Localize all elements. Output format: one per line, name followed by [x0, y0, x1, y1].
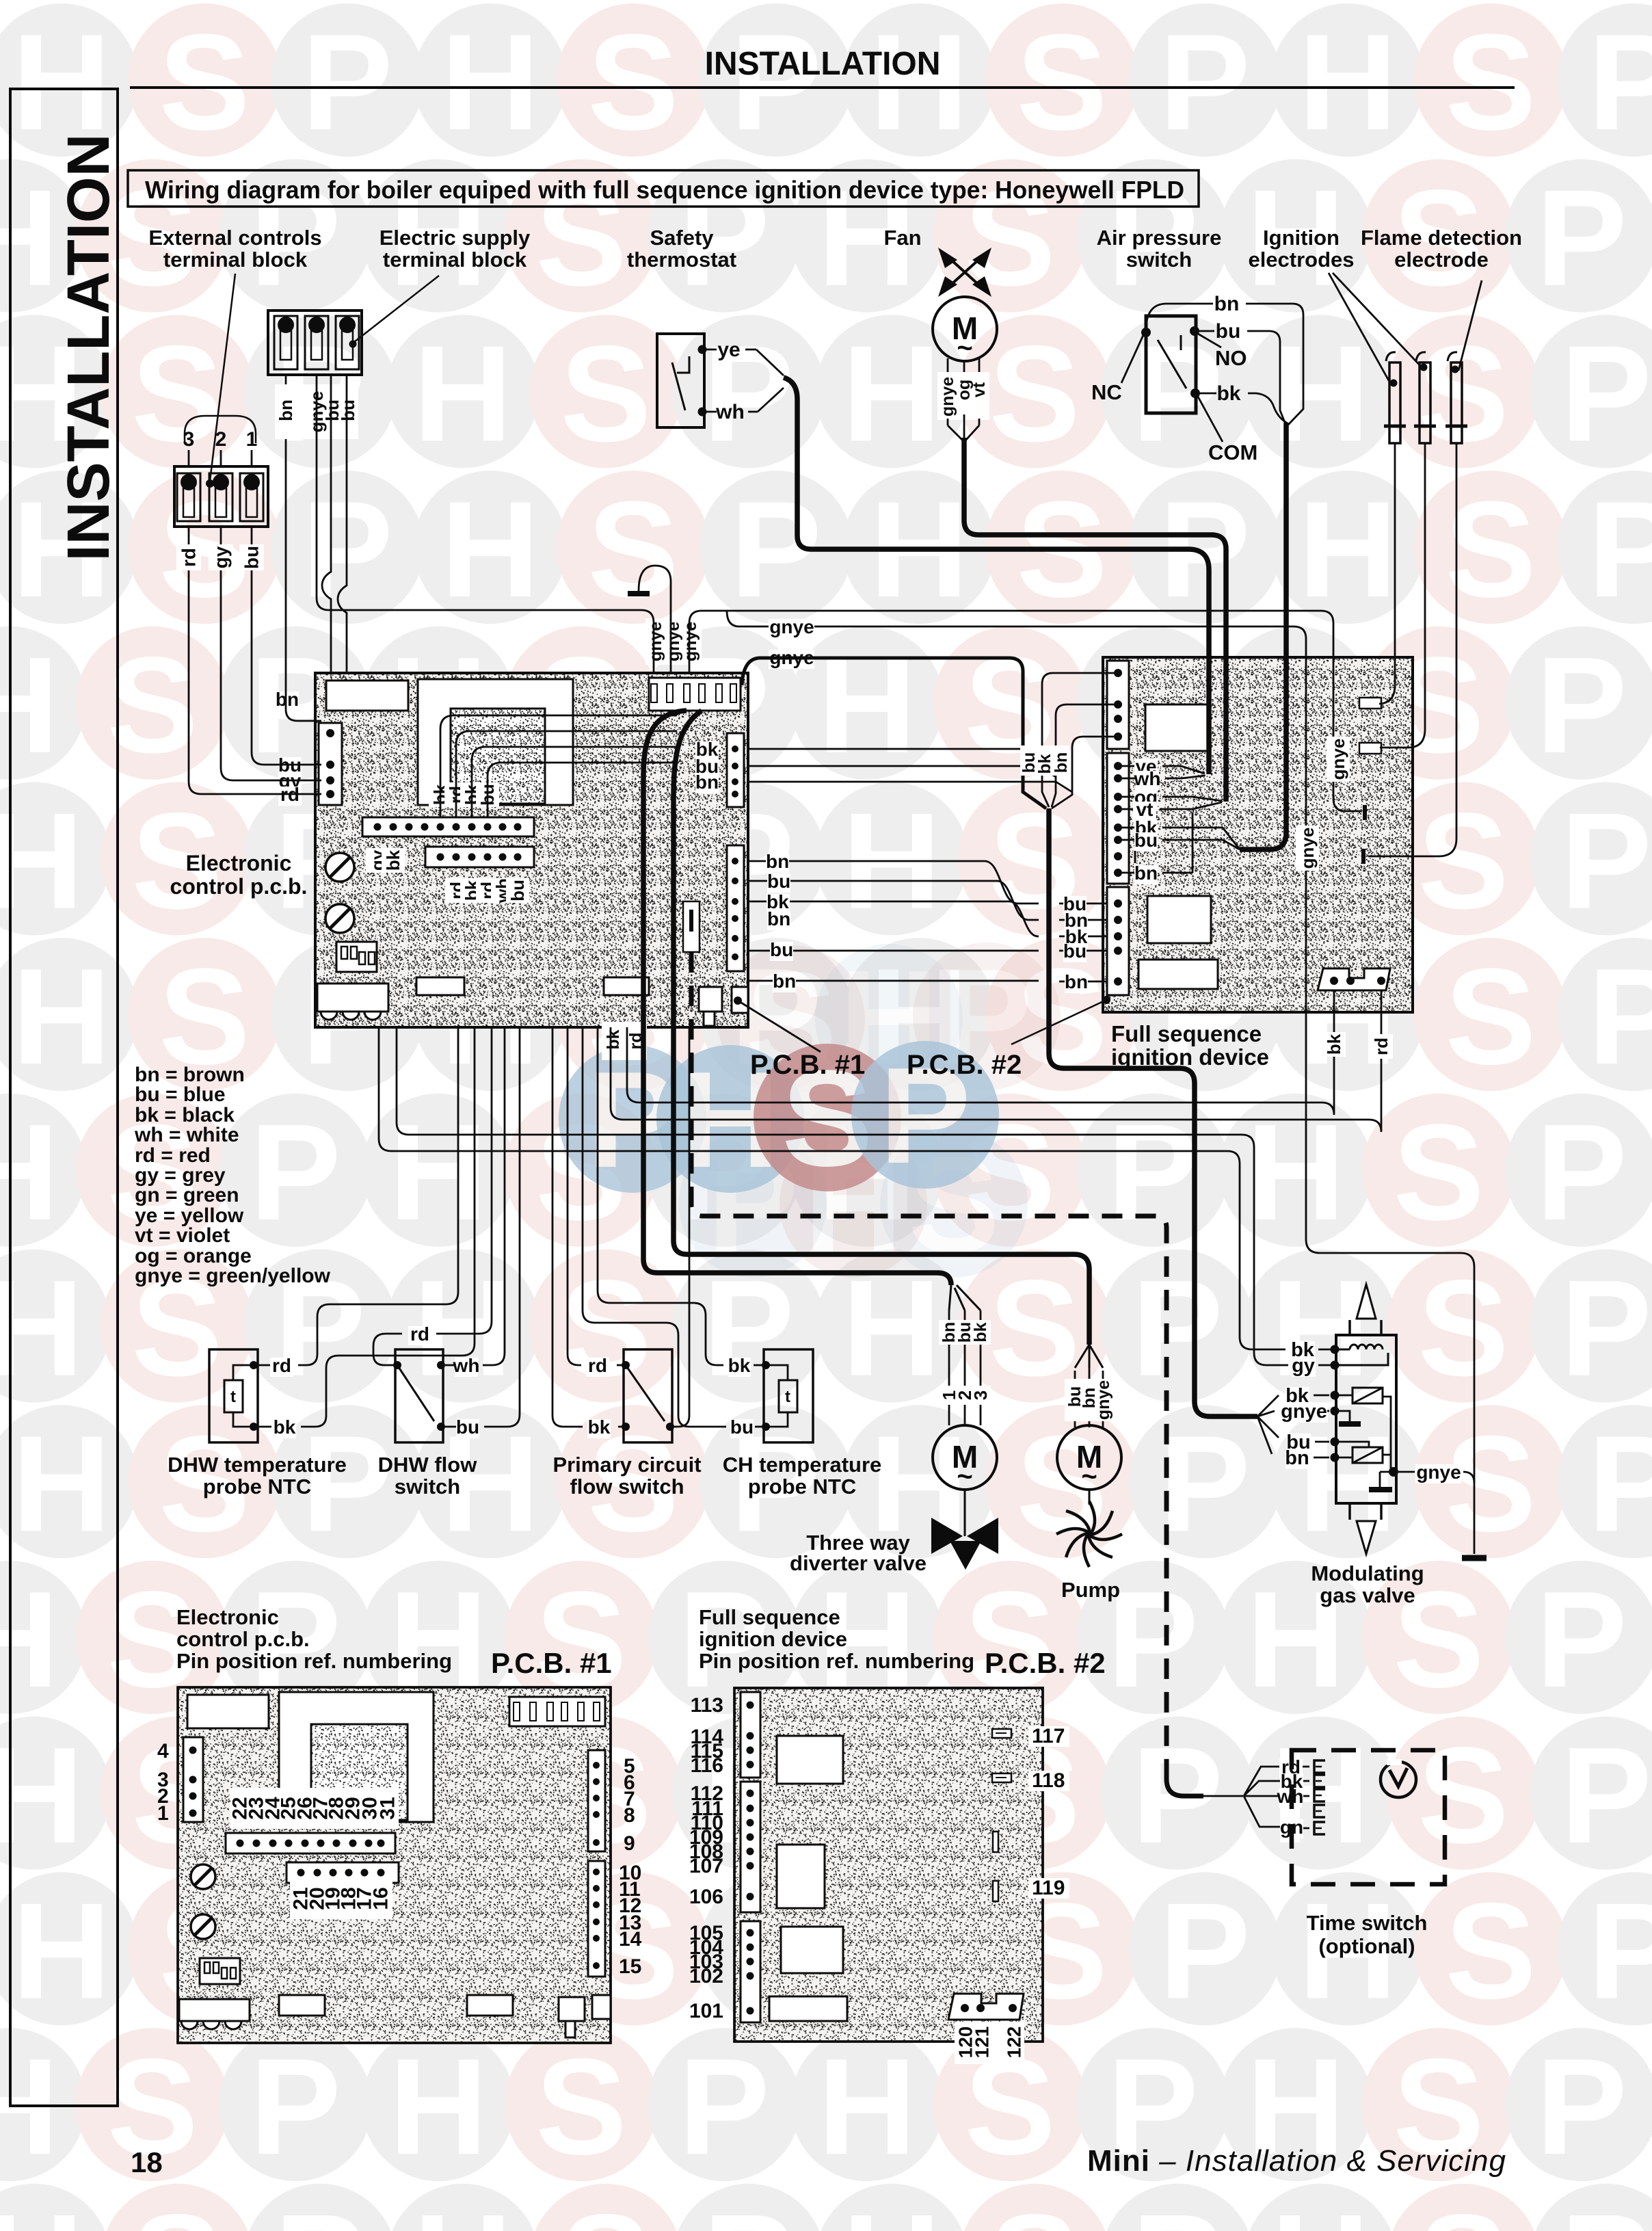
svg-text:H: H — [0, 162, 59, 315]
svg-text:P.C.B. #1: P.C.B. #1 — [750, 1050, 865, 1080]
svg-text:bn: bn — [1052, 752, 1071, 774]
svg-text:15: 15 — [619, 1955, 641, 1978]
electronic control pcb (PCB1) board — [276, 618, 1203, 1796]
svg-text:S: S — [1016, 6, 1107, 159]
wire rd DHW flow — [373, 1334, 402, 1365]
svg-text:P: P — [1560, 317, 1651, 470]
svg-text:gnye: gnye — [646, 622, 665, 661]
wire ignition electrode 1 to ignition device — [1379, 443, 1395, 704]
svg-text:H: H — [818, 629, 916, 782]
pcb1 gnye connector — [649, 678, 741, 711]
wire ye — [704, 349, 717, 351]
svg-text:H: H — [0, 785, 83, 938]
pcb1 left connector — [319, 723, 342, 805]
primary circuit flow switch — [624, 1349, 672, 1442]
gas valve gnye earth — [1331, 1407, 1340, 1416]
svg-text:wh: wh — [715, 401, 745, 423]
svg-text:101: 101 — [689, 2000, 723, 2022]
svg-text:S: S — [1393, 1096, 1484, 1249]
svg-text:S: S — [587, 473, 678, 626]
wire bk CH probe — [754, 1364, 762, 1367]
svg-text:Wiring diagram for boiler equi: Wiring diagram for boiler equiped with f… — [145, 176, 1184, 204]
svg-text:P: P — [1536, 1563, 1627, 1716]
fsid right pin symbols — [1359, 698, 1381, 709]
pcb1 right connector 2 — [727, 845, 744, 971]
diverter valve motor — [933, 1425, 997, 1490]
diverter valve symbol — [931, 1518, 963, 1554]
fsid connector 3 — [1107, 887, 1129, 995]
svg-text:gas valve: gas valve — [1320, 1583, 1415, 1607]
gas valve internal bus — [1383, 1397, 1391, 1472]
svg-text:P: P — [703, 2187, 794, 2231]
svg-text:gy: gy — [1292, 1355, 1315, 1377]
svg-text:Electronic: Electronic — [186, 851, 292, 875]
svg-text:bk: bk — [1216, 382, 1240, 405]
svg-text:P: P — [1107, 1563, 1198, 1716]
svg-text:bn: bn — [276, 399, 296, 421]
svg-text:P: P — [1536, 2031, 1627, 2183]
svg-text:H: H — [870, 6, 968, 159]
svg-text:bu = blue: bu = blue — [135, 1083, 226, 1106]
svg-text:H: H — [414, 2187, 512, 2231]
earth symbol near pcb1 — [628, 591, 650, 596]
pinout pcb2 board — [734, 1688, 1043, 2042]
svg-text:~: ~ — [1081, 1462, 1097, 1492]
svg-text:P: P — [1159, 1875, 1250, 2027]
time switch wire split — [1203, 1795, 1243, 1797]
svg-text:bu: bu — [507, 880, 528, 901]
pcb1 white routing region — [418, 679, 573, 805]
svg-text:wh: wh — [453, 1355, 480, 1376]
wire bu from supply to pcb1 — [322, 375, 331, 673]
svg-text:P: P — [1588, 473, 1652, 626]
bundle legs from fsid conn1 — [1042, 673, 1122, 807]
svg-text:S: S — [131, 2187, 222, 2231]
svg-text:P: P — [1132, 1252, 1223, 1405]
svg-text:H: H — [0, 1563, 59, 1716]
svg-text:S: S — [1445, 940, 1536, 1093]
svg-text:P: P — [1588, 940, 1652, 1093]
leader external controls — [210, 274, 235, 481]
svg-text:rd: rd — [410, 1323, 429, 1345]
svg-text:S: S — [1417, 1252, 1508, 1405]
wire flame electrode to ignition device — [1368, 443, 1456, 856]
svg-text:COM: COM — [1208, 440, 1257, 464]
pcb1 10-pin connector — [362, 817, 534, 836]
electric supply terminal block — [268, 311, 362, 375]
pinout pcb1 dip — [200, 1958, 240, 1984]
fsid pin wires and labels — [1122, 765, 1135, 767]
svg-text:H: H — [0, 2187, 83, 2231]
wires pcb1 conn1 to bundle — [748, 749, 1042, 761]
fan wires gnye og vt — [947, 358, 949, 373]
pinout pcb1 right connectors — [588, 1750, 605, 1851]
svg-text:S: S — [1417, 785, 1508, 938]
svg-text:102: 102 — [689, 1965, 723, 1988]
fsid connector 1 — [1107, 661, 1129, 749]
svg-text:vt = violet: vt = violet — [135, 1224, 230, 1247]
svg-text:16: 16 — [370, 1887, 392, 1910]
svg-text:S: S — [560, 2187, 651, 2231]
leader ignition electrodes — [1329, 273, 1390, 383]
svg-text:S: S — [587, 6, 678, 159]
svg-text:S: S — [107, 629, 198, 782]
svg-text:P: P — [1536, 1096, 1627, 1249]
gas valve gnye tail to earth — [1398, 1471, 1415, 1473]
wire wh — [704, 411, 717, 413]
svg-text:terminal block: terminal block — [383, 248, 527, 272]
wire bu 2 from supply to pcb1 — [338, 375, 347, 673]
pcb1 bottom-left connector — [317, 984, 388, 1012]
pcb1 mains connector — [326, 681, 408, 711]
svg-text:DHW temperature: DHW temperature — [168, 1453, 347, 1477]
svg-text:gnye: gnye — [1416, 1462, 1461, 1483]
svg-text:H: H — [441, 6, 539, 159]
svg-text:switch: switch — [395, 1475, 460, 1499]
svg-text:P: P — [1159, 6, 1250, 159]
svg-text:3: 3 — [183, 428, 195, 451]
svg-text:P: P — [1536, 629, 1627, 782]
thick bundle to gas valve — [1049, 808, 1257, 1416]
svg-text:Modulating: Modulating — [1311, 1561, 1424, 1585]
pinout pcb2 right pins — [992, 1729, 1011, 1738]
svg-text:thermostat: thermostat — [627, 248, 736, 272]
svg-text:P: P — [302, 6, 392, 159]
svg-text:P: P — [703, 317, 794, 470]
svg-text:106: 106 — [689, 1886, 723, 1908]
svg-text:control p.c.b.: control p.c.b. — [176, 1627, 310, 1651]
svg-text:Mini – Installation & Servicin: Mini – Installation & Servicing — [1087, 2144, 1506, 2178]
svg-text:Primary circuit: Primary circuit — [552, 1453, 701, 1477]
wire wh DHW flow — [445, 1364, 455, 1367]
pinout pcb1 10pin connector — [226, 1833, 395, 1853]
svg-text:gnye: gnye — [1328, 739, 1348, 780]
pinout pcb1 board — [178, 1687, 611, 2043]
svg-text:S: S — [1445, 473, 1536, 626]
svg-text:H: H — [842, 2187, 941, 2231]
diverter valve wires bn bu bk 1 2 3 — [948, 1310, 950, 1320]
time switch dashed box — [1292, 1750, 1445, 1884]
gas valve relay 2 — [1331, 1438, 1340, 1447]
pcb1 6-pin connector — [425, 847, 534, 867]
svg-text:gnye: gnye — [769, 616, 814, 637]
svg-text:18: 18 — [131, 2146, 163, 2178]
svg-text:Full sequence: Full sequence — [1111, 1021, 1262, 1046]
wire gy from terminal 2 — [221, 527, 321, 780]
pcb1 potentiometer 1 — [325, 853, 354, 882]
svg-text:2: 2 — [215, 428, 227, 451]
pcb1 dip switches — [336, 942, 377, 972]
svg-text:H: H — [441, 473, 539, 626]
svg-text:NC: NC — [1091, 380, 1122, 404]
svg-text:S: S — [535, 2031, 626, 2183]
svg-text:t: t — [230, 1388, 236, 1406]
svg-text:S: S — [1445, 6, 1536, 159]
leader electric supply — [354, 276, 439, 342]
gnye bus from pcb1 pin to ignition device — [689, 611, 1361, 811]
svg-text:P.C.B. #1: P.C.B. #1 — [491, 1647, 612, 1679]
svg-text:H: H — [1271, 1252, 1370, 1405]
svg-text:bn: bn — [1214, 293, 1240, 315]
svg-text:S: S — [1445, 1408, 1536, 1560]
svg-text:bu: bu — [730, 1416, 754, 1438]
svg-text:H: H — [1271, 2187, 1370, 2231]
wire bk primary flow — [618, 1426, 626, 1428]
air pressure switch — [1146, 316, 1196, 413]
pinout pcb2 bottom connector — [948, 1994, 1024, 2020]
gas valve coil — [1331, 1345, 1340, 1354]
svg-text:119: 119 — [1032, 1877, 1065, 1899]
modulating gas valve body — [1336, 1335, 1396, 1503]
svg-text:bu: bu — [1134, 830, 1158, 851]
svg-text:DHW flow: DHW flow — [378, 1453, 478, 1477]
svg-text:H: H — [12, 1875, 111, 2027]
svg-text:H: H — [389, 1096, 488, 1249]
svg-text:gnye: gnye — [664, 622, 683, 661]
earth bar bottom right — [1462, 1555, 1487, 1561]
svg-text:electrode: electrode — [1394, 248, 1489, 272]
svg-text:diverter valve: diverter valve — [790, 1551, 927, 1575]
svg-text:H: H — [0, 1719, 83, 1872]
svg-text:H: H — [1298, 1408, 1397, 1560]
svg-text:Electronic: Electronic — [176, 1605, 279, 1629]
svg-text:Pin position ref. numbering: Pin position ref. numbering — [699, 1649, 974, 1673]
svg-text:gn = green: gn = green — [135, 1184, 239, 1206]
svg-text:S: S — [989, 317, 1080, 470]
svg-text:S: S — [159, 6, 250, 159]
wire bu CH probe — [755, 1426, 762, 1428]
fsid bottom right connector — [1318, 968, 1390, 990]
wire ignition electrode 2 to ignition device — [1380, 443, 1425, 748]
svg-text:rd: rd — [588, 1355, 607, 1376]
svg-text:bk: bk — [383, 849, 403, 871]
svg-text:1: 1 — [246, 428, 258, 451]
leader to PCB1 label — [738, 1001, 821, 1052]
svg-text:bn: bn — [1134, 862, 1158, 884]
svg-text:bu: bu — [1216, 320, 1241, 343]
svg-text:H: H — [842, 317, 941, 470]
fan symbol — [944, 253, 986, 291]
svg-text:bn: bn — [276, 689, 299, 710]
svg-text:Pump: Pump — [1061, 1578, 1120, 1602]
svg-text:S: S — [159, 473, 250, 626]
svg-text:H: H — [12, 1408, 111, 1560]
svg-text:121: 121 — [972, 2027, 993, 2059]
wire bk from COM — [1200, 393, 1216, 395]
svg-text:31: 31 — [377, 1797, 399, 1819]
svg-text:bn: bn — [773, 971, 796, 992]
pcb1 bottom right connector — [699, 987, 722, 1012]
wire bu from terminal 1 — [252, 527, 321, 765]
electrode at x=2130 — [1451, 362, 1462, 443]
svg-text:P: P — [1159, 1408, 1250, 1560]
svg-text:gnye: gnye — [1281, 1401, 1327, 1423]
svg-text:switch: switch — [1126, 248, 1192, 272]
svg-text:H: H — [414, 317, 512, 470]
svg-text:P: P — [250, 2031, 341, 2183]
svg-text:Air pressure: Air pressure — [1097, 226, 1222, 250]
time switch contacts — [1314, 1760, 1325, 1773]
svg-text:~: ~ — [957, 1462, 972, 1492]
svg-text:bn: bn — [766, 851, 789, 872]
svg-text:H: H — [1298, 6, 1397, 159]
wire bu DHW flow — [445, 1426, 456, 1428]
svg-text:Full sequence: Full sequence — [699, 1605, 840, 1629]
wire gnye from supply to pcb1 gnye connector — [317, 375, 654, 673]
wire rd from terminal 3 — [189, 527, 321, 794]
svg-text:bu: bu — [767, 871, 790, 892]
thick wire air pressure switch to ignition device — [1240, 423, 1286, 849]
svg-text:14: 14 — [619, 1928, 642, 1951]
svg-text:electrodes: electrodes — [1248, 248, 1354, 272]
wires pcb1 to fsid bottom connector (bk rd) — [627, 990, 1334, 1115]
svg-text:H: H — [0, 1252, 83, 1405]
svg-text:bk: bk — [274, 1416, 296, 1438]
svg-text:S: S — [1445, 1875, 1536, 2027]
svg-text:H: H — [0, 1096, 59, 1249]
svg-text:rd: rd — [178, 548, 200, 567]
thick wire thermostat to ignition device (ye/wh) — [784, 378, 1209, 774]
svg-text:P.C.B. #2: P.C.B. #2 — [907, 1050, 1022, 1080]
pcb1 potentiometer 2 — [325, 904, 354, 933]
svg-text:P: P — [1560, 2187, 1651, 2231]
svg-text:107: 107 — [689, 1855, 723, 1877]
fsid connector 2 — [1107, 753, 1129, 884]
svg-text:P: P — [1560, 1719, 1651, 1872]
wire bk DHW probe — [258, 1426, 271, 1428]
svg-text:bu: bu — [456, 1416, 479, 1438]
svg-text:Ignition: Ignition — [1263, 226, 1340, 250]
wire rd DHW probe — [258, 1364, 270, 1367]
electrode at x=2084 — [1420, 362, 1430, 443]
svg-text:bu: bu — [241, 546, 263, 569]
svg-text:H: H — [12, 940, 111, 1093]
svg-text:vt: vt — [970, 382, 989, 397]
gnye branch to earth (lower bus) — [727, 611, 1474, 1554]
colour legend — [134, 1064, 331, 1287]
wire bn from NC — [1146, 304, 1213, 332]
svg-text:bn: bn — [1065, 971, 1088, 992]
svg-text:Fan: Fan — [883, 226, 921, 250]
svg-text:gnye: gnye — [1297, 828, 1318, 869]
svg-text:3: 3 — [970, 1390, 991, 1400]
svg-text:H: H — [389, 2031, 488, 2183]
svg-text:ye: ye — [717, 339, 740, 361]
svg-text:gy: gy — [211, 546, 232, 568]
svg-text:P: P — [1560, 1252, 1651, 1405]
svg-text:P: P — [250, 1096, 341, 1249]
svg-text:P: P — [1536, 162, 1627, 315]
svg-text:terminal block: terminal block — [163, 248, 308, 272]
svg-text:bn: bn — [695, 771, 719, 793]
CH temperature probe NTC — [764, 1349, 813, 1442]
svg-text:117: 117 — [1032, 1725, 1065, 1747]
svg-text:INSTALLATION: INSTALLATION — [705, 46, 941, 82]
wire rd primary flow — [617, 1364, 626, 1367]
pinout pcb1 bottom connectors — [179, 1999, 250, 2021]
svg-text:bk: bk — [604, 1029, 623, 1049]
svg-text:rd: rd — [1371, 1038, 1391, 1055]
svg-text:t: t — [785, 1388, 790, 1406]
dashed wire to time switch — [691, 952, 1167, 1779]
svg-text:Time switch: Time switch — [1307, 1911, 1428, 1935]
svg-text:gnye: gnye — [1094, 1380, 1113, 1420]
svg-text:P: P — [730, 6, 821, 159]
svg-text:bu: bu — [1063, 940, 1087, 962]
svg-text:9: 9 — [624, 1832, 635, 1855]
pump wires bu bn gnye — [1074, 1371, 1076, 1379]
svg-text:NO: NO — [1215, 346, 1247, 370]
svg-text:bn: bn — [767, 908, 790, 929]
wire bn from supply — [286, 375, 321, 721]
svg-text:H: H — [1298, 473, 1397, 626]
pcb1 bottom white rects — [416, 977, 464, 995]
svg-text:113: 113 — [691, 1694, 723, 1717]
bundle split to gas valve pins — [1257, 1395, 1279, 1454]
svg-text:wh = white: wh = white — [134, 1124, 239, 1146]
svg-text:bn: bn — [1285, 1447, 1309, 1469]
svg-text:P: P — [678, 2031, 769, 2183]
pinout pcb1 pots — [191, 1864, 215, 1889]
svg-text:Flame detection: Flame detection — [1361, 226, 1522, 250]
svg-text:P: P — [1560, 785, 1651, 938]
wires pcb1 to gas valve (bk gy) — [379, 1027, 1285, 1349]
fan motor M — [933, 297, 997, 361]
svg-text:ignition device: ignition device — [699, 1627, 847, 1651]
pinout pcb1 6pin connector — [287, 1862, 399, 1883]
svg-text:S: S — [1417, 2187, 1508, 2231]
svg-text:bk: bk — [971, 1322, 990, 1342]
svg-text:control p.c.b.: control p.c.b. — [170, 874, 308, 899]
svg-text:rd: rd — [272, 1355, 291, 1376]
thick wire fan to ignition device (og/vt) — [964, 438, 1226, 802]
svg-text:gnye: gnye — [681, 622, 700, 661]
sidebar box — [10, 89, 118, 2106]
svg-text:8: 8 — [624, 1804, 635, 1827]
svg-text:S: S — [1417, 1719, 1508, 1872]
pcb1 right connector 1 — [727, 733, 744, 807]
svg-text:INSTALLATION: INSTALLATION — [55, 133, 122, 561]
fsid white rects — [1145, 704, 1209, 751]
svg-text:118: 118 — [1032, 1769, 1065, 1792]
svg-text:P: P — [302, 1408, 392, 1560]
svg-text:S: S — [989, 2187, 1080, 2231]
svg-text:bu: bu — [338, 399, 358, 421]
svg-text:External controls: External controls — [148, 226, 321, 250]
svg-text:H: H — [818, 2031, 916, 2183]
svg-text:probe NTC: probe NTC — [748, 1475, 856, 1499]
svg-text:P: P — [1588, 1875, 1652, 2027]
pinout pcb2 connectors — [741, 1692, 760, 1778]
gas valve relay 1 — [1331, 1391, 1340, 1400]
svg-text:1: 1 — [157, 1802, 169, 1825]
svg-text:P: P — [1588, 1408, 1652, 1560]
svg-text:(optional): (optional) — [1318, 1934, 1415, 1958]
thick gnye from pcb1 to bundle — [742, 658, 1046, 808]
svg-text:P: P — [1132, 2187, 1223, 2231]
svg-text:~: ~ — [957, 333, 972, 363]
electrode at x=2040 — [1389, 362, 1400, 443]
thick wire B to pump — [674, 711, 1089, 1345]
external controls terminal block (fuses 3 2 1) — [185, 416, 256, 443]
pcb1 internal routing wires — [440, 715, 677, 817]
svg-text:Safety: Safety — [650, 226, 714, 250]
svg-text:P.C.B. #2: P.C.B. #2 — [985, 1647, 1106, 1679]
pcb1 dashed slot — [683, 901, 700, 952]
svg-text:CH temperature: CH temperature — [723, 1453, 882, 1477]
central HSP logo watermark (decorative) — [559, 941, 1061, 1281]
time switch clock symbol — [1381, 1762, 1416, 1797]
